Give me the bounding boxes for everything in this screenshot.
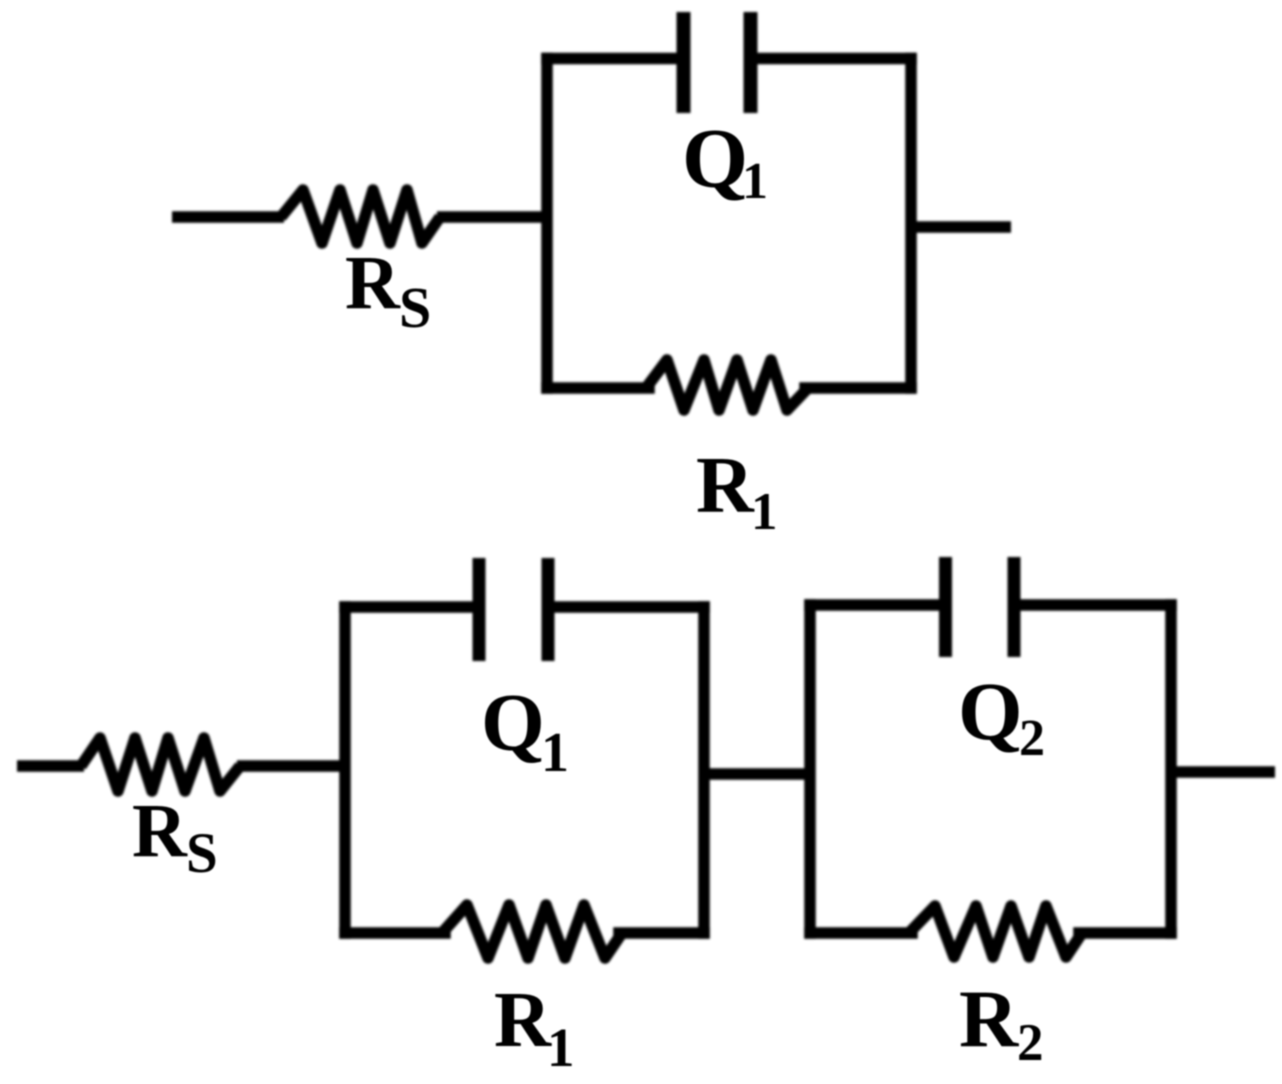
wire: box1 right vertical	[698, 607, 710, 933]
wire: box1 bottom-left segment	[345, 927, 445, 939]
wire: box1 bottom-right segment	[619, 927, 704, 939]
label Q1 (bottom circuit)	[481, 677, 569, 784]
label RS (top circuit)	[345, 241, 431, 340]
label Q2 (bottom circuit)	[958, 665, 1045, 767]
wire: box2 top-right segment	[1021, 599, 1171, 611]
wire: RS to bottom block 1	[237, 760, 347, 772]
svg-text:1: 1	[751, 483, 778, 541]
wire: bottom circuit input lead	[17, 760, 84, 772]
label Q1 (top circuit)	[682, 112, 768, 211]
resistor R2 (bottom circuit)	[909, 906, 1082, 957]
svg-text:S: S	[399, 275, 431, 340]
label R1 (bottom circuit)	[494, 977, 575, 1078]
wire: top box bottom-left segment	[547, 382, 649, 394]
resistor RS (top circuit)	[281, 190, 440, 243]
label R1 (top circuit)	[696, 442, 778, 541]
wire: box2 bottom-right segment	[1079, 927, 1171, 939]
svg-text:Q: Q	[682, 112, 748, 206]
wire: top box left vertical	[541, 59, 553, 389]
wire: top circuit input lead	[172, 211, 284, 223]
svg-text:Q: Q	[481, 677, 545, 768]
resistor RS (bottom circuit)	[81, 738, 240, 791]
svg-text:R: R	[494, 977, 552, 1064]
wire: RS to top parallel block	[437, 211, 549, 223]
wire: box2 right vertical	[1165, 605, 1177, 933]
wire: top circuit output lead	[911, 221, 1011, 233]
svg-text:R: R	[345, 241, 401, 325]
wire: top box top-right segment	[753, 53, 911, 65]
capacitor Q1 (top circuit)	[684, 12, 751, 113]
svg-text:1: 1	[547, 1017, 575, 1078]
label RS (bottom circuit)	[132, 789, 218, 885]
svg-text:1: 1	[742, 153, 768, 210]
svg-text:R: R	[959, 973, 1019, 1064]
wire: box2 left vertical	[804, 605, 816, 933]
wire: box2 top-left segment	[810, 599, 939, 611]
wire: top box top-left segment	[547, 53, 681, 65]
svg-text:S: S	[186, 822, 218, 885]
svg-text:R: R	[696, 442, 755, 530]
resistor R1 (bottom circuit)	[442, 905, 622, 958]
svg-text:1: 1	[541, 722, 569, 784]
wire: box1 top-left segment	[345, 601, 473, 613]
svg-text:Q: Q	[958, 665, 1023, 757]
svg-text:2: 2	[1017, 1014, 1044, 1072]
wire: top box bottom-right segment	[805, 382, 911, 394]
capacitor Q1 (bottom circuit)	[479, 558, 548, 661]
wire: box1 to box2 connecting wire	[704, 768, 810, 780]
svg-text:2: 2	[1019, 710, 1045, 767]
svg-text:R: R	[132, 789, 188, 873]
wire: bottom circuit output lead	[1171, 766, 1275, 778]
label R2 (bottom circuit)	[959, 973, 1044, 1072]
wire: top box right vertical	[905, 59, 917, 389]
capacitor Q2 (bottom circuit)	[946, 557, 1015, 657]
resistor R1 (top circuit)	[646, 360, 808, 410]
wire: box2 bottom-left segment	[810, 927, 912, 939]
wire: box1 top-right segment	[554, 601, 704, 613]
wire: box1 left vertical	[339, 607, 351, 933]
